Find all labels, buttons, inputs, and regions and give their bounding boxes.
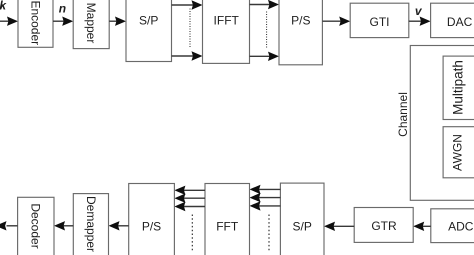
svg-text:ADC: ADC <box>448 220 474 234</box>
wire Decoder output <box>0 221 18 230</box>
wire S/P to IFFT bottom <box>172 51 203 60</box>
wire GTR to S/P <box>324 222 354 231</box>
wire S/P to FFT line 1 <box>250 185 281 194</box>
wire GTI to DAC <box>409 17 431 26</box>
block FFT <box>205 184 250 255</box>
wire P/S to GTI <box>322 17 350 26</box>
block Decoder <box>18 197 54 255</box>
block GTR <box>354 208 413 243</box>
block S/P transmitter <box>126 0 172 62</box>
svg-text:AWGN: AWGN <box>450 134 464 171</box>
wire Demapper to Decoder <box>54 221 73 230</box>
wire P/S to Demapper <box>109 221 129 230</box>
svg-text:Encoder: Encoder <box>29 0 43 45</box>
block Demapper <box>73 194 108 255</box>
wire S/P to IFFT top <box>172 0 203 9</box>
block IFFT <box>203 0 250 63</box>
wire IFFT to P/S bottom <box>250 52 280 61</box>
svg-text:FFT: FFT <box>216 220 239 234</box>
svg-text:P/S: P/S <box>291 14 310 28</box>
wire ADC to GTR <box>413 222 431 231</box>
block Mapper <box>73 0 109 49</box>
block Multipath <box>443 56 474 119</box>
dotted bus ellipsis S/P-FFT <box>268 215 270 253</box>
svg-text:Mapper: Mapper <box>84 3 98 44</box>
wire IFFT to P/S top <box>250 0 280 9</box>
svg-text:n: n <box>59 2 66 16</box>
svg-text:Multipath: Multipath <box>451 60 466 115</box>
label k <box>0 0 7 13</box>
dotted bus ellipsis FFT-P/S <box>191 215 193 253</box>
svg-text:Demapper: Demapper <box>84 196 98 252</box>
svg-text:GTI: GTI <box>370 15 390 29</box>
svg-text:IFFT: IFFT <box>214 14 240 28</box>
wire Encoder to Mapper <box>53 17 73 26</box>
block DAC <box>431 3 474 37</box>
block P/S transmitter <box>279 0 322 65</box>
svg-text:Decoder: Decoder <box>29 203 43 248</box>
wire input k <box>0 17 18 26</box>
svg-text:P/S: P/S <box>142 220 161 234</box>
svg-text:Channel: Channel <box>396 92 410 137</box>
block Encoder <box>18 0 53 47</box>
block GTI <box>350 3 409 37</box>
block P/S receiver <box>129 184 175 255</box>
wire FFT to P/S line 1 <box>174 186 205 195</box>
block AWGN <box>443 127 474 178</box>
dotted bus ellipsis IFFT-P/S <box>266 12 268 50</box>
wire Mapper to S/P <box>109 17 126 26</box>
svg-text:GTR: GTR <box>371 219 397 233</box>
block Channel <box>410 46 474 201</box>
block ADC <box>431 209 474 243</box>
block S/P receiver <box>280 183 324 255</box>
svg-text:DAC: DAC <box>447 15 473 29</box>
svg-text:S/P: S/P <box>293 220 312 234</box>
svg-text:S/P: S/P <box>139 14 158 28</box>
dotted bus ellipsis S/P-IFFT <box>189 9 191 48</box>
wire FFT to P/S line 2 <box>174 194 205 203</box>
wire S/P to FFT line 3 <box>250 201 281 210</box>
wire FFT to P/S line 3 <box>174 202 205 211</box>
wire S/P to FFT line 2 <box>250 193 281 202</box>
